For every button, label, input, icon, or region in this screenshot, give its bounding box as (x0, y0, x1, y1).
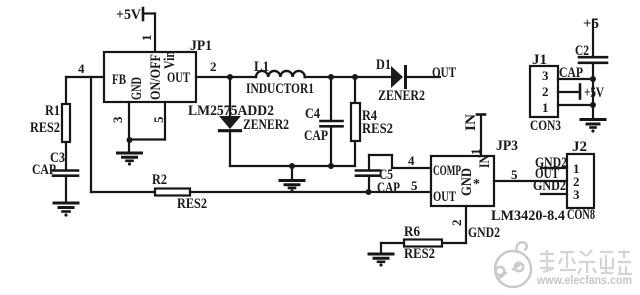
wire +5V to JP1 pin1 (154, 14, 156, 53)
watermark logo elecfans (495, 242, 531, 287)
wire COMP pin4 (392, 167, 431, 169)
svg-text:2: 2 (542, 84, 549, 99)
svg-text:3: 3 (110, 116, 125, 123)
capacitor C3 (53, 171, 78, 203)
svg-text:RES2: RES2 (404, 246, 435, 262)
svg-text:JP3: JP3 (496, 138, 518, 154)
capacitor C2 (579, 57, 607, 118)
svg-text:R6: R6 (404, 224, 420, 240)
svg-text:CON3: CON3 (530, 118, 561, 134)
svg-text:ZENER2: ZENER2 (378, 88, 425, 104)
wire J2 pin1 stub (541, 167, 567, 169)
svg-text:CAP: CAP (304, 128, 328, 144)
svg-text:+5: +5 (583, 16, 599, 32)
op-amp U2 JP3 LM3420 box (431, 156, 494, 206)
svg-text:CAP: CAP (559, 65, 583, 81)
svg-text:RES2: RES2 (30, 120, 60, 136)
svg-text:ZENER2: ZENER2 (243, 117, 289, 133)
svg-text:INDUCTOR1: INDUCTOR1 (246, 81, 314, 97)
capacitor C5 with loop wiring (356, 155, 392, 192)
svg-text:IN: IN (463, 114, 479, 131)
svg-text:+5V: +5V (584, 85, 604, 101)
svg-text:CON8: CON8 (567, 207, 595, 223)
svg-text:GND2: GND2 (468, 225, 500, 241)
resistor R6 (404, 240, 442, 247)
resistor R4 (351, 77, 360, 166)
diode D1 (391, 66, 440, 88)
svg-text:R2: R2 (152, 172, 167, 188)
wire JP1 pin5 ON/OFF (129, 102, 165, 140)
svg-text:2: 2 (210, 59, 217, 74)
svg-text:Vin: Vin (162, 50, 178, 69)
svg-text:5: 5 (151, 116, 166, 123)
wire J1 pin1 stub (558, 104, 593, 106)
svg-text:C4: C4 (305, 106, 320, 122)
wire JP3 pin2 GND (442, 206, 466, 243)
wire pin2 OUT rail (196, 76, 256, 78)
node C4 bottom (328, 163, 334, 169)
node junction pin3/pin5 (127, 137, 133, 143)
node R4 top (352, 74, 358, 80)
svg-text:JP1: JP1 (190, 38, 212, 54)
svg-text:5: 5 (411, 178, 418, 193)
svg-text:J1: J1 (532, 52, 547, 68)
svg-text:FB: FB (112, 72, 126, 88)
wire JP1 pin3 GND (128, 102, 130, 140)
wire pin4 FB (66, 76, 104, 78)
svg-text:1: 1 (542, 100, 549, 115)
svg-text:GND2: GND2 (533, 178, 566, 194)
wire bottom rail (230, 165, 355, 167)
node J1 pin1 / ground line (590, 102, 596, 108)
svg-text:COMP: COMP (433, 163, 461, 179)
diode zener shunt (219, 77, 241, 166)
svg-text:4: 4 (408, 153, 415, 168)
svg-text:1: 1 (468, 149, 483, 156)
ground mid rail (280, 166, 304, 193)
svg-text:3: 3 (542, 68, 549, 83)
wire IN net (477, 115, 485, 157)
wire J2 pin3 stub (541, 193, 567, 195)
power +5 top-right (592, 20, 594, 56)
node J1 pin3 / C2 (590, 76, 596, 82)
svg-text:LM3420-8.4: LM3420-8.4 (491, 208, 565, 224)
node zener top (227, 74, 233, 80)
svg-text:4: 4 (78, 61, 85, 76)
svg-text:GND: GND (129, 77, 145, 100)
svg-text:*: * (473, 177, 480, 192)
capacitor C4 (321, 77, 343, 166)
svg-text:R1: R1 (45, 103, 60, 119)
node C4 top (328, 74, 334, 80)
wire J1 pin2 stub +5V (558, 85, 580, 99)
ground under C2 (581, 120, 605, 133)
node ground tap (289, 163, 295, 169)
wire node FB vertical feedback (90, 77, 92, 192)
svg-text:CAP: CAP (377, 180, 400, 196)
svg-text:L1: L1 (254, 59, 269, 75)
svg-text:OUT: OUT (167, 70, 190, 86)
wire R2 right to JP3 OUT pin5 (190, 191, 431, 193)
ground under JP1 (118, 140, 142, 166)
ground under C3 (54, 203, 78, 217)
op-amp U1 JP1 regulator box (104, 52, 196, 102)
svg-text:2: 2 (449, 220, 464, 227)
ground under R6 (369, 254, 393, 267)
svg-text:CAP: CAP (32, 162, 56, 178)
svg-text:+5V: +5V (116, 7, 141, 23)
svg-text:C2: C2 (575, 43, 589, 59)
watermark chinese text (540, 250, 632, 274)
connector J2 box (567, 154, 594, 208)
wire R6 to ground (381, 243, 404, 253)
svg-text:3: 3 (573, 187, 580, 202)
svg-text:www.elecfans.com: www.elecfans.com (536, 275, 632, 287)
resistor R2 (155, 189, 190, 196)
svg-text:RES2: RES2 (177, 196, 207, 212)
wire R2 left (91, 191, 155, 193)
power +5V top-left (143, 8, 155, 20)
svg-text:1: 1 (139, 35, 154, 42)
svg-text:5: 5 (511, 167, 518, 182)
svg-text:OUT: OUT (432, 65, 456, 81)
node C5 bottom (366, 189, 372, 195)
resistor R1 (62, 77, 70, 170)
svg-text:RES2: RES2 (362, 121, 393, 137)
svg-text:IN: IN (477, 155, 493, 168)
connector J1 box (530, 66, 558, 117)
wire J1 pin3 stub CAP (558, 78, 593, 80)
wire JP3 right pin5 to J2 pin2 (494, 180, 567, 182)
svg-text:OUT: OUT (433, 189, 456, 205)
wire inductor to D1 (305, 76, 391, 78)
svg-text:D1: D1 (376, 57, 391, 73)
inductor L1 (256, 71, 305, 77)
svg-text:J2: J2 (572, 139, 587, 155)
